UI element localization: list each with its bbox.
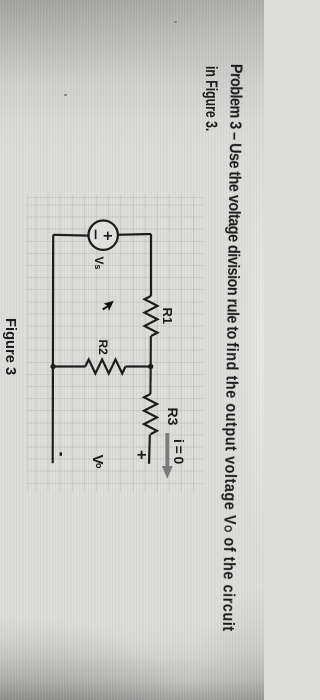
label i = 0 xyxy=(173,439,187,464)
wire R2 branch lower xyxy=(53,365,85,367)
wire left branch upper xyxy=(118,233,151,236)
output minus tick xyxy=(60,452,62,456)
wire to + terminal xyxy=(149,435,150,464)
label Vs xyxy=(94,257,106,270)
wire left branch lower xyxy=(53,234,88,237)
plus sign inside source xyxy=(61,230,112,456)
label R2 xyxy=(98,340,110,355)
wire top xyxy=(150,234,152,296)
resistor R3 xyxy=(144,394,157,434)
wire R2 branch upper xyxy=(126,365,151,367)
node junction bottom (R2/bottom wire) xyxy=(50,364,55,369)
minus sign inside source xyxy=(95,230,97,240)
label Vo output xyxy=(91,455,106,469)
node junction top (R2/top wire) xyxy=(148,364,153,369)
label Figure 3 xyxy=(3,318,18,375)
voltage source Vs xyxy=(89,221,118,250)
mouse cursor xyxy=(102,301,114,311)
current arrow i=0 xyxy=(162,433,173,479)
label + output xyxy=(133,450,150,460)
label R3 xyxy=(167,408,181,426)
wire bottom xyxy=(52,235,55,463)
wire xyxy=(149,336,152,394)
resistor R1 xyxy=(145,296,158,336)
label R1 xyxy=(161,308,174,325)
resistor R2 xyxy=(85,360,125,374)
